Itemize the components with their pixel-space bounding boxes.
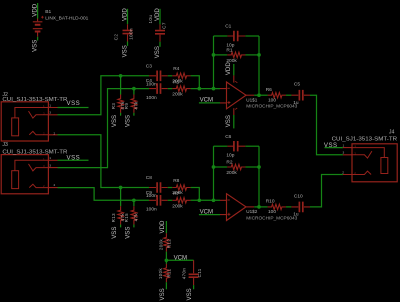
J4 pin 1 internal + sleeve	[352, 148, 384, 158]
feedback right vertical	[258, 146, 260, 207]
feedback left vertical	[213, 146, 215, 200]
J4 pin stubs	[343, 148, 352, 175]
resistor R4 (200k)	[168, 75, 173, 77]
wire J2 pin 3 to C3 row	[58, 76, 150, 115]
junction row1/row2 merge	[197, 198, 201, 202]
svg-text:R1: R1	[226, 48, 232, 54]
resistor R7 (200k)	[168, 199, 173, 201]
J3 pin stubs	[48, 160, 57, 187]
svg-text:47k: 47k	[133, 101, 138, 110]
svg-text:VDD: VDD	[225, 62, 232, 75]
svg-text:47k: 47k	[133, 213, 138, 222]
capacitor C7	[159, 24, 161, 41]
svg-text:MICROCHIP_MCP6043: MICROCHIP_MCP6043	[246, 104, 298, 109]
svg-text:VDD: VDD	[159, 220, 166, 233]
svg-text:C1: C1	[225, 24, 231, 30]
junction output	[257, 93, 261, 97]
capacitor C2	[127, 24, 129, 41]
svg-text:1: 1	[343, 144, 345, 148]
svg-text:VSS: VSS	[111, 227, 118, 239]
svg-text:R2: R2	[226, 160, 232, 166]
svg-text:VSS: VSS	[225, 115, 232, 127]
svg-text:R3: R3	[111, 103, 116, 110]
wire J3 pin 2 to C9 row	[58, 188, 150, 201]
svg-text:C3: C3	[146, 64, 152, 70]
svg-text:200k: 200k	[172, 203, 183, 209]
net VSS at J4 pin 1	[325, 147, 343, 149]
junction feedback tap	[212, 198, 216, 202]
svg-text:MICROCHIP_MCP6043: MICROCHIP_MCP6043	[246, 215, 298, 220]
J4 pin 3 contact	[352, 151, 372, 158]
resistor R10 (100)	[268, 204, 286, 209]
svg-text:R7: R7	[173, 191, 179, 197]
power VDD (R12)	[165, 221, 167, 233]
J3 pin 1 internal + sleeve	[15, 160, 49, 170]
svg-text:C4: C4	[146, 78, 152, 84]
junction feedback left on R row	[212, 165, 216, 169]
wire J2 pin 2 to C8 row	[58, 135, 150, 188]
op-amp U1$1	[227, 82, 247, 109]
svg-text:R8: R8	[173, 178, 179, 184]
svg-text:100: 100	[268, 97, 276, 103]
junction on row2 x=133.9	[132, 198, 136, 202]
capacitor C10 (1u)	[291, 206, 310, 208]
svg-text:2: 2	[342, 170, 344, 174]
svg-text:100k: 100k	[158, 268, 163, 280]
svg-text:10u: 10u	[148, 15, 153, 24]
capacitor C4 (100n)	[149, 88, 168, 90]
svg-text:R9: R9	[124, 103, 129, 110]
svg-text:R15: R15	[124, 213, 129, 222]
svg-text:CUI_SJ1-3513-SMT-TR: CUI_SJ1-3513-SMT-TR	[2, 150, 67, 156]
svg-text:R13: R13	[111, 213, 116, 222]
junction on row1 x=120.6	[119, 186, 123, 190]
svg-text:C8: C8	[146, 175, 152, 181]
resistor R13 (47k pulldown)	[120, 188, 122, 207]
svg-text:VSS: VSS	[159, 288, 166, 300]
net VCM (divider)	[166, 259, 193, 261]
ground VSS (C11)	[193, 285, 195, 289]
svg-text:VCM: VCM	[174, 254, 188, 261]
svg-text:C11: C11	[197, 268, 202, 277]
net VCM (op-amp U1$1 +)	[199, 102, 220, 104]
wire row1 corner to minus row	[191, 76, 200, 89]
resistor R15 (47k pulldown)	[133, 200, 135, 206]
svg-text:VSS: VSS	[154, 46, 161, 58]
svg-text:1: 1	[49, 103, 51, 107]
power VDD (C2)	[127, 9, 129, 24]
svg-text:VSS: VSS	[186, 288, 193, 300]
junction VCM node	[165, 258, 169, 262]
resistor R3 (47k pulldown)	[120, 76, 122, 95]
J4 pin 2 contact	[352, 171, 371, 174]
svg-text:1u: 1u	[293, 100, 299, 106]
wire C10 to J4 pin 2	[310, 175, 343, 207]
svg-text:10p: 10p	[226, 153, 234, 159]
ground VSS (C2)	[127, 42, 129, 46]
svg-text:C2: C2	[114, 34, 119, 41]
svg-text:2: 2	[54, 132, 56, 136]
svg-text:VCM: VCM	[200, 97, 214, 104]
svg-text:C6: C6	[225, 134, 231, 140]
resistor R11 (100k)	[165, 260, 167, 264]
svg-text:C7: C7	[161, 22, 166, 29]
feedback left vertical	[213, 36, 215, 89]
op-amp U1$2	[227, 194, 247, 221]
svg-text:3: 3	[49, 111, 51, 115]
wire J3 pin 3 to C4 row	[58, 89, 150, 168]
junction on row2 x=133.9	[132, 87, 136, 91]
svg-text:100n: 100n	[128, 28, 133, 40]
svg-text:R10: R10	[266, 199, 275, 205]
capacitor C11 (470n)	[193, 260, 195, 285]
J2 pin 1 internal + sleeve	[15, 108, 49, 118]
svg-text:1: 1	[49, 156, 51, 160]
net VSS at J3 pin 1	[58, 159, 89, 161]
svg-text:470n: 470n	[182, 268, 187, 280]
ground VSS (C7)	[159, 42, 161, 47]
capacitor C5 (1u)	[291, 94, 310, 96]
svg-text:100n: 100n	[146, 207, 157, 213]
svg-text:B1: B1	[45, 9, 51, 15]
svg-text:R6: R6	[266, 87, 272, 93]
svg-text:R4: R4	[173, 66, 179, 72]
op-amp output	[246, 94, 254, 96]
junction feedback right on R row	[257, 53, 261, 57]
J2 pin 2 contact	[29, 131, 48, 134]
wire minus row to op-amp	[191, 88, 220, 90]
capacitor C1 (10p)	[214, 35, 228, 37]
svg-text:VDD: VDD	[154, 8, 161, 21]
svg-text:3: 3	[49, 164, 51, 168]
resistor R5 (200k)	[168, 88, 173, 90]
connector J2	[1, 102, 48, 141]
svg-text:100n: 100n	[146, 95, 157, 101]
J3 pin 3 contact	[29, 164, 49, 171]
svg-text:C9: C9	[146, 190, 152, 196]
svg-text:VSS: VSS	[67, 100, 81, 107]
resistor R12 (200k)	[164, 233, 169, 251]
junction feedback tap	[212, 87, 216, 91]
junction feedback left on R row	[212, 53, 216, 57]
J2 pin 3 contact	[29, 111, 49, 118]
svg-text:VSS: VSS	[125, 115, 132, 127]
J3 pin 2 contact	[29, 184, 48, 187]
svg-text:VCM: VCM	[200, 208, 214, 215]
svg-text:VDD: VDD	[31, 3, 38, 16]
wire C5 to J4 pin 3	[310, 95, 343, 155]
svg-text:U1$1: U1$1	[246, 97, 257, 102]
ground VSS (U1$1)	[233, 108, 235, 115]
svg-text:VSS: VSS	[122, 45, 129, 57]
op-amp output	[246, 206, 254, 208]
svg-text:VSS: VSS	[125, 227, 132, 239]
svg-text:100: 100	[268, 209, 276, 215]
svg-text:VSS: VSS	[324, 142, 338, 149]
svg-text:VSS: VSS	[111, 115, 118, 127]
capacitor C6 (10p)	[214, 145, 228, 147]
svg-text:2: 2	[54, 183, 56, 187]
svg-text:C10: C10	[294, 193, 303, 199]
capacitor C3 (100n)	[149, 75, 168, 77]
svg-text:200k: 200k	[158, 239, 163, 251]
svg-text:R11: R11	[167, 268, 172, 277]
svg-text:200k: 200k	[226, 170, 237, 176]
wire minus row to op-amp	[191, 199, 220, 201]
svg-text:CUI_SJ1-3513-SMT-TR: CUI_SJ1-3513-SMT-TR	[332, 136, 398, 142]
svg-text:VSS: VSS	[67, 155, 81, 162]
svg-text:U1$2: U1$2	[246, 209, 257, 214]
capacitor C9 (100n)	[149, 199, 168, 201]
svg-text:3: 3	[343, 151, 345, 155]
power VDD (U1$1)	[233, 75, 235, 82]
net VSS at J2 pin 1	[58, 107, 89, 109]
svg-text:1u: 1u	[293, 212, 299, 218]
resistor R1 (200k)	[214, 54, 228, 56]
svg-text:R12: R12	[167, 239, 172, 248]
svg-text:VSS: VSS	[32, 40, 39, 52]
wire row1 corner to minus row	[191, 188, 200, 201]
svg-text:VDD: VDD	[121, 8, 128, 21]
svg-text:200k: 200k	[172, 92, 183, 98]
resistor R2 (200k)	[214, 166, 228, 168]
feedback right vertical	[258, 36, 260, 95]
ground VSS (battery)	[37, 37, 39, 41]
junction on row1 x=120.6	[119, 74, 123, 78]
svg-text:LINX_BAT-HLD-001: LINX_BAT-HLD-001	[45, 15, 88, 21]
power VDD (C7)	[159, 9, 161, 25]
connector J4	[352, 144, 397, 182]
battery B1	[37, 19, 39, 37]
svg-text:C5: C5	[294, 82, 300, 88]
net VCM (op-amp U1$2 +)	[199, 214, 220, 216]
svg-text:CUI_SJ1-3513-SMT-TR: CUI_SJ1-3513-SMT-TR	[2, 97, 67, 103]
power VDD (battery)	[37, 3, 39, 19]
junction feedback right on R row	[257, 165, 261, 169]
resistor R8 (200k)	[168, 187, 173, 189]
junction row1/row2 merge	[197, 87, 201, 91]
J2 pin stubs	[48, 108, 57, 135]
capacitor C8 (100n)	[149, 187, 168, 189]
svg-text:J3: J3	[2, 142, 8, 148]
connector J3	[1, 155, 48, 194]
resistor R6 (100)	[268, 93, 286, 98]
svg-text:J4: J4	[389, 130, 395, 136]
svg-text:R5: R5	[173, 79, 179, 85]
junction output	[257, 205, 261, 209]
resistor R9 (47k pulldown)	[133, 89, 135, 95]
